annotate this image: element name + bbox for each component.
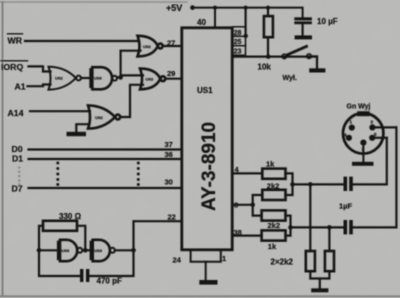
wire 2x2k2 bottoms to ground	[310, 271, 329, 278]
wire pin40	[214, 8, 216, 28]
wire A14	[30, 110, 90, 112]
svg-text:470 pF: 470 pF	[97, 277, 122, 286]
resistor 1k (ch A)	[262, 169, 285, 179]
svg-text:US2: US2	[143, 44, 152, 49]
svg-text:WR: WR	[8, 36, 23, 46]
node load A	[308, 182, 313, 187]
border frame left	[2, 2, 4, 296]
wire +5V to pin 28	[245, 8, 247, 36]
DIN pin 1	[349, 125, 355, 131]
svg-text:IORQ: IORQ	[1, 62, 23, 72]
svg-text:US2: US2	[146, 77, 155, 82]
ground switch	[309, 68, 325, 72]
wire pin 3	[233, 204, 253, 206]
junction pin40	[213, 6, 217, 10]
resistor 1k (ch C)	[262, 230, 286, 240]
wire node R to cap 1uF lower	[291, 226, 344, 228]
wire DIN pin5 out	[374, 137, 387, 139]
wire feedback lower right	[89, 250, 133, 276]
wire 330 left lead	[39, 226, 43, 251]
NOR gate US2 (A14)	[88, 105, 120, 128]
ground DIN	[352, 162, 374, 166]
wire node R	[286, 216, 291, 236]
node osc input	[37, 248, 42, 253]
junction pin28 riser	[244, 6, 248, 10]
wire osc output	[115, 249, 134, 251]
wire clock to pin 22	[134, 221, 182, 250]
DIN pin 5	[369, 135, 375, 141]
svg-text:A14: A14	[8, 108, 24, 118]
wire A14 gate ground stub	[76, 124, 89, 132]
svg-text:2k2: 2k2	[268, 221, 281, 230]
junction 10k riser	[266, 6, 270, 10]
svg-text:1: 1	[222, 254, 226, 263]
resistor 330 ohm	[43, 221, 77, 231]
node 10k bottom	[266, 54, 271, 59]
DIN socket circle	[343, 113, 383, 153]
resistor 10k	[267, 8, 269, 17]
svg-text:1k: 1k	[266, 159, 275, 168]
svg-text:1k: 1k	[268, 242, 277, 251]
svg-text:US3: US3	[94, 248, 103, 253]
NOR gate US2 (BC1, pin 29)	[140, 69, 165, 90]
resistor 2x2k2 A	[309, 184, 311, 251]
svg-text:AY-3-8910: AY-3-8910	[199, 122, 220, 211]
svg-text:24: 24	[173, 256, 182, 265]
ground A14 gate	[67, 132, 87, 136]
capacitor 1uF lower	[344, 220, 353, 234]
svg-text:US3: US3	[94, 76, 103, 81]
NAND gate US3 (inverter)	[91, 67, 117, 89]
svg-text:25: 25	[234, 39, 242, 46]
svg-text:10k: 10k	[258, 62, 272, 71]
bus ellipsis dots column 1	[56, 162, 59, 187]
svg-text:27: 27	[167, 38, 175, 47]
svg-text:US2: US2	[55, 76, 64, 81]
NAND gate US3 osc1	[58, 240, 82, 261]
svg-text:40: 40	[197, 18, 206, 27]
ground 2x2k2	[311, 288, 328, 292]
+5V rail wire	[193, 8, 303, 18]
wire cap upper to DIN pin5	[353, 138, 387, 185]
NAND gate US3 osc2	[91, 240, 115, 261]
svg-text:30: 30	[165, 178, 173, 187]
wire osc input	[39, 249, 57, 251]
wire to pin 29	[165, 78, 182, 80]
wire pin 38	[233, 235, 262, 237]
wire cap lower to DIN pin3	[353, 127, 397, 227]
capacitor 10uF	[294, 17, 312, 24]
resistor 2x2k2 B	[328, 227, 330, 251]
pin boxes 28 25 23	[233, 27, 246, 55]
svg-text:US1: US1	[197, 86, 213, 95]
node R dot	[288, 225, 293, 230]
svg-text:36: 36	[165, 150, 173, 159]
wire A14 gate output to BC1 gate	[120, 85, 143, 117]
svg-text:1µF: 1µF	[339, 202, 352, 211]
wire node L	[286, 173, 293, 195]
IC US1 AY-3-8910 body	[182, 28, 232, 250]
switch Wyl	[282, 54, 286, 58]
wire node to BC1 gate	[121, 74, 143, 76]
node pin 3	[250, 203, 255, 208]
ground 10uF	[295, 35, 312, 39]
wire NAND output	[117, 76, 121, 78]
wire DIN pin2 ground	[362, 144, 364, 162]
svg-text:Wył.: Wył.	[283, 75, 297, 82]
svg-text:D7: D7	[12, 183, 23, 193]
wire pin3 to 2k2 upper	[253, 195, 263, 205]
svg-text:10 µF: 10 µF	[317, 17, 338, 26]
ground IC	[199, 280, 217, 285]
DIN pin 3	[369, 124, 375, 130]
svg-text:2×2k2: 2×2k2	[271, 258, 294, 267]
wire osc mid	[84, 249, 89, 251]
node NAND out	[118, 75, 123, 80]
node L dot	[290, 182, 295, 187]
border frame bottom	[0, 295, 400, 297]
svg-text:D0: D0	[12, 144, 23, 154]
DIN pin 2	[360, 140, 366, 146]
wire D7	[29, 187, 182, 189]
wire pin 4	[233, 172, 262, 174]
bus ellipsis dots column 2	[137, 162, 140, 187]
svg-text:29: 29	[167, 69, 175, 78]
NOR gate US2 (IORQ/A1)	[49, 67, 82, 90]
node pin 28	[244, 34, 248, 38]
wire node L to cap 1uF upper	[293, 183, 344, 185]
NOR gate US2 (BDIR, pin 27)	[138, 36, 163, 57]
resistor 2k2 (ch B lower)	[262, 210, 286, 220]
wire DIN pin3 out	[374, 126, 396, 128]
wire NOR to NAND	[81, 77, 89, 79]
wire pin3 to 2k2 lower	[253, 205, 262, 216]
border frame top	[0, 1, 187, 3]
node osc output	[131, 248, 136, 253]
wire D0	[29, 148, 182, 150]
capacitor 1uF upper	[344, 177, 353, 191]
wire WR	[25, 40, 139, 42]
+5V terminal dot	[190, 5, 195, 10]
svg-text:28: 28	[234, 30, 242, 37]
resistor 2k2 (ch B upper)	[262, 190, 285, 200]
wire 330 right lead	[77, 226, 85, 251]
wire node to upper gate	[121, 51, 141, 78]
wire feedback lower left	[39, 250, 80, 276]
svg-text:37: 37	[165, 140, 173, 149]
wire IORQ	[29, 66, 51, 71]
svg-text:US2: US2	[95, 115, 104, 120]
svg-text:23: 23	[234, 49, 242, 56]
wire D1	[29, 158, 182, 160]
capacitor 470pF	[80, 269, 89, 282]
wire to pin 27	[163, 45, 182, 47]
node load B	[327, 225, 332, 230]
wire A1	[28, 85, 51, 87]
svg-text:US3: US3	[62, 248, 71, 253]
wire pins 24/1 to ground	[191, 250, 221, 262]
svg-text:D1: D1	[12, 154, 23, 164]
wire pin 23 to switch	[233, 55, 317, 57]
svg-text:A1: A1	[15, 82, 26, 92]
svg-text:Gn Wyj: Gn Wyj	[347, 104, 371, 111]
DIN pin 4	[346, 135, 352, 141]
DIN socket key notch	[357, 111, 370, 116]
node osc mid	[83, 248, 88, 253]
svg-text:+5V: +5V	[166, 3, 182, 13]
bus ellipsis dots faint column	[18, 166, 21, 185]
